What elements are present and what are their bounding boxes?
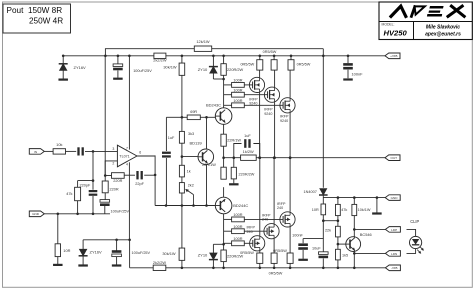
resistor 30k/1W bottom (181, 206, 183, 249)
net tag GND left (29, 211, 44, 217)
svg-text:100nF: 100nF (292, 233, 303, 237)
svg-text:100R: 100R (233, 225, 242, 229)
wire gate bus bottom (223, 214, 225, 251)
resistor 47k clip (337, 198, 339, 205)
svg-text:LDN: LDN (391, 252, 397, 256)
trimmer 2k2 wiper arrow (193, 195, 195, 206)
resistor 22R/1W lower (221, 167, 226, 179)
wire source lead IRFP240 #2 (273, 239, 275, 253)
wire BD139 collector (206, 117, 208, 149)
ground below 100uF bottom (112, 264, 122, 266)
capacitor 100nF clip (302, 239, 304, 244)
capacitor 220pF (92, 181, 94, 190)
transistor IRFP9240 #1 (249, 77, 264, 92)
svg-text:47k: 47k (341, 208, 347, 212)
svg-text:22pF: 22pF (135, 182, 144, 186)
svg-text:2: 2 (112, 161, 114, 165)
wire BC546 base (338, 243, 347, 245)
resistor 10k input (53, 149, 65, 154)
wire source lead IRFP9240 #2 (274, 70, 276, 87)
wire op-amp pin4 to -15V (128, 162, 130, 240)
wire ZY10 bottom to gate bus (213, 243, 223, 245)
resistor 47k input (77, 181, 79, 188)
svg-text:3: 3 (112, 147, 114, 151)
diode 1N4007 (319, 194, 328, 196)
svg-text:0R5/5W: 0R5/5W (297, 62, 311, 66)
ground stub right (376, 198, 378, 213)
ground below 10R (53, 264, 63, 266)
svg-text:220R: 220R (110, 188, 119, 192)
svg-text:10uF: 10uF (312, 247, 321, 251)
svg-text:69R: 69R (190, 110, 197, 114)
svg-text:BD244C: BD244C (233, 203, 248, 208)
svg-text:100R: 100R (233, 237, 242, 241)
svg-text:OUT: OUT (391, 156, 398, 160)
svg-text:4: 4 (126, 162, 128, 166)
capacitor 1uF across 1k/2W (234, 144, 242, 158)
svg-text:150W 8R: 150W 8R (28, 6, 62, 15)
wire op-amp pin7 to +15V rail (128, 56, 130, 150)
wire feedback column (104, 56, 106, 181)
transistor IRFP9240 #2 (264, 87, 279, 102)
resistor 0R5/5W top bank #2 (273, 56, 275, 60)
ground below ZY16V top (58, 78, 67, 80)
resistor 100R top gate #3 (224, 104, 232, 106)
wire drain lead IRFP9240 #2 to OUT rail (274, 102, 276, 157)
capacitor 100uF/25V top rail filter (117, 56, 119, 64)
resistor 2k2/2W bottom (in rail) (153, 265, 166, 270)
wire drain lead IRFP240 #2 to OUT rail (273, 158, 275, 224)
svg-text:240: 240 (247, 230, 253, 234)
wire source lead IRFP9240 #3 (289, 70, 291, 98)
resistor 1k bias (181, 143, 183, 165)
wire VAS emitter node (155, 205, 215, 207)
svg-text:100uF/25V: 100uF/25V (132, 251, 151, 255)
svg-text:1k5: 1k5 (342, 253, 348, 257)
wire source lead IRFP9240 #1 (259, 70, 261, 77)
capacitor 100uF/25V feedback (104, 193, 106, 200)
net tag -V85 (385, 265, 400, 271)
wire source lead IRFP240 #1 (259, 251, 261, 253)
wire -15V drop to bottom rail (129, 240, 131, 268)
resistor 100R top gate #1 (224, 84, 232, 86)
resistor 0R5/5W bottom bank #1 (257, 253, 263, 263)
LED arrows (420, 247, 423, 251)
zener ZY10 bottom (212, 260, 214, 268)
capacitor filter node wire (303, 221, 323, 239)
svg-text:BC546: BC546 (360, 232, 372, 237)
svg-text:7: 7 (126, 146, 128, 150)
capacitor 22pF (124, 174, 135, 176)
resistor 1k/2W (in OUT path) (241, 155, 257, 160)
capacitor 10uF clip (322, 239, 324, 253)
zener ZY16V top (62, 56, 64, 64)
svg-text:47k: 47k (66, 191, 72, 196)
resistor 22k clip (337, 221, 339, 227)
net tag +V85 (388, 55, 390, 57)
wire source lead IRFP240 #3 (289, 227, 291, 253)
svg-text:220R/2W: 220R/2W (227, 253, 244, 258)
resistor 220R/2W bottom (223, 262, 225, 268)
svg-text:100R: 100R (233, 79, 242, 83)
svg-text:250W 4R: 250W 4R (29, 17, 63, 26)
svg-text:9240: 9240 (280, 119, 288, 123)
svg-text:1N4007: 1N4007 (304, 190, 317, 194)
wire gate top #3 (244, 104, 283, 106)
wire sense wire to GND tag (323, 197, 389, 199)
wire +V to clip sense (322, 56, 324, 188)
zener ZY16V bottom (82, 240, 84, 249)
transistor BD244C driver (215, 197, 232, 214)
wire bottom rail left segment (130, 267, 154, 269)
svg-text:22k: 22k (325, 229, 331, 233)
wire gate bus top (223, 75, 225, 108)
svg-text:ZY10: ZY10 (198, 253, 208, 258)
wire op-amp out column down (154, 155, 156, 205)
wire BD139 emitter (206, 165, 208, 206)
svg-text:240: 240 (277, 206, 283, 210)
svg-text:ZY16V: ZY16V (74, 65, 87, 70)
svg-text:30k/1W: 30k/1W (163, 65, 177, 70)
wire input shunt column (78, 151, 93, 180)
svg-text:100R: 100R (233, 213, 242, 217)
resistor 100R bottom gate #1 (224, 218, 232, 220)
wire drain lead IRFP9240 #3 to OUT rail (289, 113, 291, 158)
resistor 2k2/2W top (in +V rail) (154, 53, 166, 58)
title box Pout ratings (3, 4, 71, 33)
capacitor 100uF/25V bottom rail filter (116, 240, 118, 251)
resistor 22R/1W upper (221, 134, 226, 146)
svg-text:Mile Slavkovic: Mile Slavkovic (426, 25, 460, 31)
wire OUT rail (224, 157, 241, 159)
resistor 10R clip (321, 204, 326, 215)
resistor 12k/1W (194, 46, 211, 51)
wire drain lead IRFP9240 #1 to OUT rail (259, 93, 261, 158)
svg-text:220R/2W: 220R/2W (227, 67, 244, 72)
resistor 220R/2W top (223, 56, 225, 64)
transistor IRFP9240 #3 (280, 98, 295, 113)
resistor 100R top gate #2 (224, 94, 232, 96)
svg-text:0R5/5W: 0R5/5W (273, 249, 287, 253)
wire gate bottom #1 (244, 218, 283, 220)
svg-text:1k: 1k (187, 170, 191, 174)
svg-text:2k2/2W: 2k2/2W (153, 260, 167, 265)
wire gate bottom #2 (244, 230, 267, 232)
transistor BD139 VAS (198, 149, 214, 165)
svg-text:HV250: HV250 (384, 29, 408, 38)
svg-text:LDP: LDP (391, 228, 397, 232)
wire BC546 emitter to LDN (353, 251, 355, 254)
transistor IRFP240 #3 (280, 212, 295, 227)
ground below 220R/2W mid (229, 183, 239, 185)
wire BC546 collector to LDP (353, 229, 355, 237)
transistor IRFP240 #1 (250, 236, 265, 251)
zener ZY10 top (212, 56, 214, 66)
svg-text:22R/1W: 22R/1W (227, 139, 241, 143)
wire bias ladder column top (181, 75, 183, 131)
wire BD244C collector (223, 187, 225, 197)
info box divider lines (379, 21, 472, 23)
resistor 220R feedback horizontal (105, 175, 111, 177)
svg-text:BD243C: BD243C (206, 103, 221, 108)
svg-text:220R/2W: 220R/2W (239, 172, 255, 176)
wire signal ground (44, 213, 110, 215)
wire drain lead IRFP240 #1 to OUT rail (259, 158, 261, 236)
svg-text:GND: GND (391, 196, 399, 200)
svg-text:TL071: TL071 (119, 155, 129, 159)
svg-text:22R/1W: 22R/1W (202, 163, 216, 167)
capacitor 1uF bias branch (162, 152, 171, 154)
wire emitter to bottom rail (353, 253, 355, 267)
svg-text:-V85: -V85 (391, 266, 398, 270)
wire 69R junction branch down (166, 116, 182, 118)
svg-text:1k/2W: 1k/2W (243, 149, 254, 154)
net tag OUT (385, 155, 400, 161)
svg-text:10k: 10k (56, 142, 62, 147)
wire input (44, 150, 53, 152)
resistor 69R (182, 116, 187, 118)
ground below 100nF clip (298, 259, 308, 261)
svg-text:3k3: 3k3 (188, 132, 194, 136)
svg-text:2k2/2W: 2k2/2W (153, 57, 167, 62)
wire BD139 base (182, 156, 198, 158)
wire gate top #1 (244, 84, 252, 86)
svg-text:0R5/5W: 0R5/5W (269, 272, 283, 276)
net tag GND right (385, 195, 400, 201)
resistor 0R5/5W bottom bank #3 (287, 253, 293, 263)
svg-text:100nF: 100nF (352, 71, 364, 76)
wire gate top #2 (244, 94, 267, 96)
wire -15V node (83, 239, 130, 241)
APEX logo (391, 6, 464, 17)
wire clip sense node (323, 220, 338, 222)
wire drain lead IRFP240 #3 to OUT rail (289, 158, 291, 212)
svg-text:12k/1W: 12k/1W (196, 39, 210, 44)
wire 12k feed line (105, 49, 194, 56)
resistor 220R feedback vertical (102, 181, 108, 193)
transistor IRFP240 #2 (264, 224, 279, 239)
svg-text:MODEL:: MODEL: (382, 23, 395, 27)
svg-text:10R: 10R (63, 248, 70, 253)
svg-text:Pout: Pout (7, 6, 25, 15)
wire op-amp out (137, 155, 155, 157)
svg-text:9240: 9240 (264, 112, 272, 116)
resistor 10R ground lift (57, 214, 59, 244)
svg-text:0R5/5W: 0R5/5W (263, 50, 277, 54)
wire to op-amp pin3 (85, 150, 117, 152)
resistor 0R5/5W top bank #1 (259, 56, 261, 60)
svg-text:100R: 100R (233, 88, 242, 92)
svg-text:30k/1W: 30k/1W (162, 251, 176, 256)
svg-text:100uF/25V: 100uF/25V (111, 210, 130, 214)
svg-text:IN: IN (34, 150, 37, 154)
svg-text:220pF: 220pF (80, 183, 91, 187)
wire BD243C base (200, 116, 215, 118)
wire gate bottom #3 (244, 242, 252, 244)
ground below 100nF top (343, 78, 353, 80)
svg-text:220R: 220R (113, 179, 122, 183)
svg-text:1uF: 1uF (168, 136, 175, 140)
svg-text:6: 6 (139, 151, 141, 155)
transistor BD243C driver (223, 124, 225, 134)
info box border (379, 2, 472, 40)
svg-text:100R: 100R (233, 99, 242, 103)
wire +V rail right segment (166, 55, 389, 57)
svg-text:+V85: +V85 (390, 54, 398, 58)
resistor 10k/1W clip (353, 198, 355, 205)
net tag IN (29, 149, 44, 155)
resistor 100R bottom gate #3 (224, 242, 232, 244)
resistor 3k3 (179, 131, 184, 143)
svg-text:10R: 10R (312, 208, 319, 212)
resistor 1k5 clip (336, 249, 341, 260)
capacitor input coupling (77, 147, 79, 155)
svg-text:2k2: 2k2 (188, 183, 194, 187)
svg-text:10k/1W: 10k/1W (358, 208, 371, 212)
svg-text:GND: GND (32, 212, 40, 216)
svg-text:100uF/25V: 100uF/25V (133, 69, 152, 73)
resistor 0R5/5W bottom bank #2 (271, 253, 277, 263)
ground below 100uF top (113, 78, 123, 80)
svg-text:BD139: BD139 (189, 140, 202, 145)
op-amp TL071 (117, 145, 137, 167)
ground below ZY16V bottom (78, 264, 88, 266)
transistor BC546 (346, 237, 361, 252)
resistor 30k/1W top (181, 56, 183, 63)
net tag LDP (385, 227, 400, 233)
wire 12k line drop to +V rail (322, 49, 324, 56)
wire ZY10 to gate bus top (213, 78, 223, 80)
wire clip node divider (322, 197, 324, 199)
svg-text:0R5/5W: 0R5/5W (240, 62, 254, 66)
svg-text:1uF: 1uF (244, 134, 251, 138)
resistor 0R5/5W top bank #3 (290, 56, 292, 60)
capacitor 100nF top rail decoupling (347, 56, 349, 63)
svg-text:apex@eunet.rs: apex@eunet.rs (425, 31, 461, 37)
wire bottom rail right segment (166, 267, 389, 269)
svg-text:ZY16V: ZY16V (90, 249, 103, 254)
resistor 100R bottom gate #2 (224, 230, 232, 232)
svg-text:ZY10: ZY10 (198, 67, 208, 72)
resistor 220R/2W mid to ground (233, 158, 235, 168)
wire op-amp pin2 feedback (105, 161, 117, 176)
net tag LDN (385, 251, 400, 257)
svg-text:CLIP: CLIP (410, 219, 419, 224)
trimmer 2k2 (181, 177, 183, 183)
wire +V rail left segment (+15V node) (63, 55, 154, 57)
